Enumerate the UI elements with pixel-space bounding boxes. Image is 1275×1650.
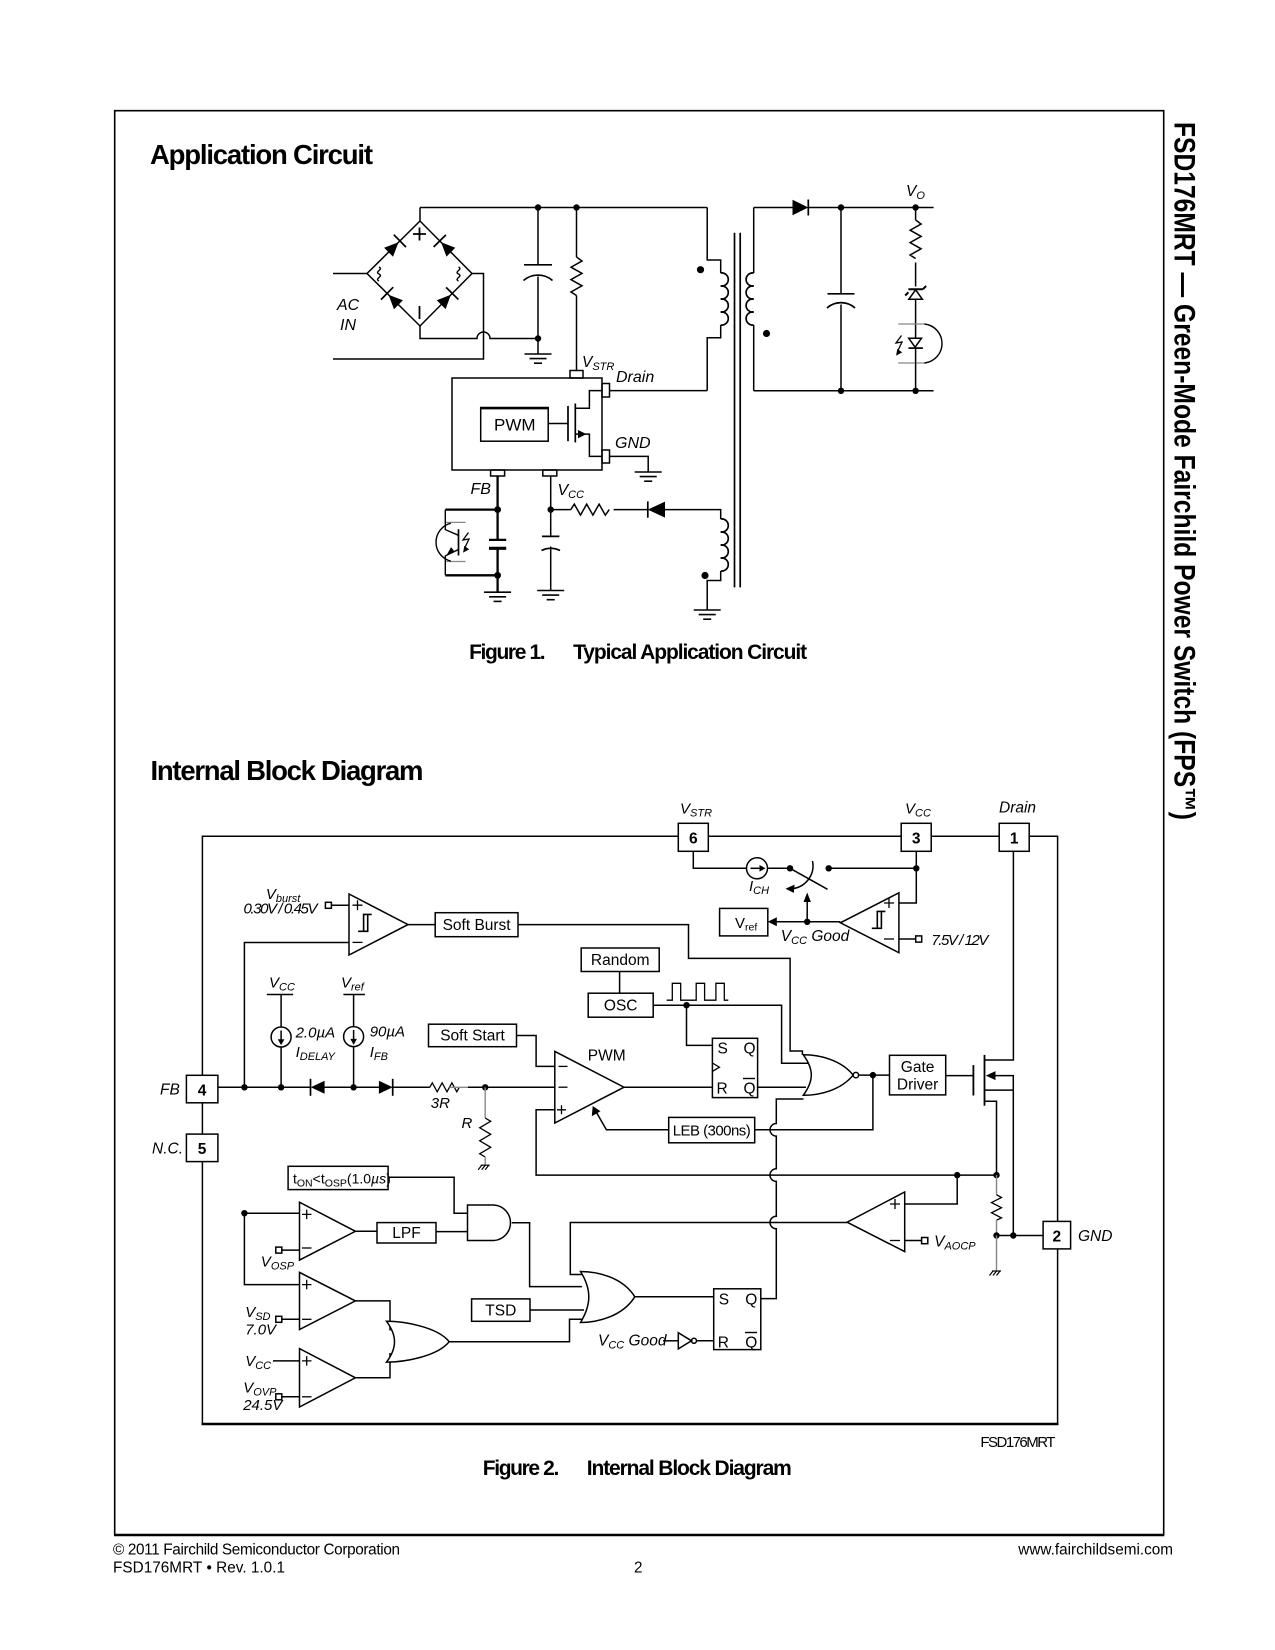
label Drain pin1 (999, 800, 1036, 817)
svg-text:Q: Q (744, 1081, 756, 1098)
opto phototransistor package (436, 522, 466, 561)
block Soft Start (429, 1024, 517, 1047)
MOSFET inside IC (548, 391, 602, 457)
ground: IC ground (635, 472, 662, 481)
svg-text:LPF: LPF (392, 1225, 420, 1242)
svg-text:6: 6 (689, 831, 698, 848)
caption: Figure 2. Internal Block Diagram (483, 1457, 792, 1480)
label FB (471, 481, 492, 498)
label Vo (906, 183, 925, 202)
ground: aux ground (694, 610, 721, 619)
block LPF (377, 1223, 436, 1243)
pin VCC stub (543, 470, 557, 476)
comparator PWM (555, 1051, 624, 1123)
comparator VSD (300, 1272, 356, 1329)
label GND pin2 (1078, 1228, 1112, 1245)
node: dot gnd at body (1010, 1232, 1016, 1238)
diode D_aux (648, 501, 665, 517)
label NC pin5 (152, 1140, 183, 1157)
gate NOR main (803, 1055, 858, 1096)
bridge plus mark (413, 228, 426, 241)
svg-text:OSC: OSC (604, 998, 638, 1015)
opto phototransistor light arrow (463, 533, 469, 553)
wire: burst output to Soft Burst (408, 924, 435, 926)
svg-text:Q: Q (745, 1292, 757, 1309)
ground: sense hatch ground (990, 1271, 1002, 1276)
label VSTR pin6 (680, 801, 712, 820)
node: dot FB at IDELAY (278, 1084, 284, 1090)
wire: 3R to PWM minus (468, 1086, 555, 1088)
svg-text:S: S (718, 1041, 728, 1058)
pin Drain stub (602, 384, 610, 398)
gate AND OSP (468, 1205, 511, 1241)
ground: VCC ground (537, 591, 564, 600)
wire: FB net thick (445, 476, 497, 592)
node: junction dot at startup resistor top (573, 204, 579, 210)
transformer secondary winding (746, 208, 754, 391)
wire: FF1 Qbar to NOR input (758, 1086, 806, 1088)
svg-text:Q: Q (744, 1041, 756, 1058)
opto phototransistor Q_fb (445, 510, 458, 576)
terminal square 7.5V/12V (916, 936, 922, 942)
label PWM blockdiag (588, 1048, 626, 1065)
wire: small OR output to big OR (449, 1319, 582, 1341)
current source ICH (747, 858, 768, 879)
svg-text:5: 5 (198, 1141, 207, 1158)
comparator OSP (300, 1202, 356, 1260)
footer right url (1017, 1541, 1173, 1558)
clock waveform (667, 983, 729, 1000)
node: FB junction dot top (494, 506, 501, 513)
wire: big OR to FF2 S (635, 1296, 714, 1298)
svg-text:2.0µA: 2.0µA (295, 1025, 336, 1042)
node: dot on OSC wire (683, 1002, 689, 1008)
comparator VCC good (left pointing) (840, 893, 899, 953)
node: junction dot at filter cap top (535, 204, 541, 210)
pin FB stub (491, 470, 505, 476)
wire: rectified DC top rail (420, 207, 707, 209)
terminal square VOSP (276, 1247, 300, 1253)
svg-text:LEB (300ns): LEB (300ns) (673, 1123, 751, 1140)
svg-text:Drain: Drain (999, 800, 1036, 817)
svg-text:PWM: PWM (588, 1048, 626, 1065)
svg-text:4: 4 (198, 1082, 207, 1099)
node: junction dot VCC (548, 506, 554, 512)
block diagram outer box (202, 836, 1059, 1424)
svg-text:7.0V: 7.0V (245, 1322, 278, 1339)
wire: gate driver to mosfet gate (946, 1075, 974, 1077)
block TSD (472, 1299, 530, 1321)
svg-text:3: 3 (912, 831, 921, 848)
label AC IN (336, 297, 360, 334)
svg-text:FSD176MRT: FSD176MRT (980, 1434, 1055, 1451)
wire: drain to transformer (610, 390, 708, 392)
svg-text:R: R (717, 1081, 728, 1098)
node: junction dot cap bottom (838, 388, 844, 394)
wire: IDELAY to FB line (280, 1047, 282, 1087)
zener diode ZD1 (905, 286, 926, 338)
bridge diode lower-left (381, 287, 403, 309)
pin 3 VCC (901, 823, 931, 851)
svg-text:© 2011 Fairchild Semiconductor: © 2011 Fairchild Semiconductor Corporati… (113, 1541, 400, 1558)
power MOSFET M1 (973, 852, 1013, 1236)
node: junction dot divider bottom (912, 388, 918, 394)
node: dot NOR output (870, 1072, 876, 1078)
wire: GND pin to ground (610, 456, 649, 472)
node: dot at OSP branch (241, 1210, 247, 1216)
flip-flop FF2 (714, 1289, 761, 1352)
terminal square Vburst (325, 902, 331, 908)
svg-text:1: 1 (1010, 831, 1019, 848)
svg-text:90µA: 90µA (370, 1024, 405, 1041)
wire: OSC output (653, 1005, 810, 1063)
svg-text:Driver: Driver (897, 1077, 938, 1094)
supply bar VCC for IDELAY (267, 995, 293, 1028)
footer left line 1 (113, 1541, 400, 1558)
wire: pin6 to ICH (693, 851, 746, 868)
svg-text:3R: 3R (431, 1095, 450, 1112)
svg-text:Soft Start: Soft Start (440, 1028, 505, 1045)
bridge minus mark (419, 306, 421, 319)
svg-text:FB: FB (160, 1082, 180, 1099)
wire: LPF to AND input (436, 1231, 468, 1233)
svg-text:R: R (718, 1335, 729, 1352)
wire: VSD out to small OR (355, 1301, 390, 1331)
opto LED diode (908, 338, 923, 391)
wire: secondary top rail (754, 207, 934, 209)
wire: LEB output to NOR net (755, 1075, 873, 1130)
svg-text:GND: GND (1078, 1228, 1112, 1245)
block Gate Driver (890, 1055, 946, 1095)
label Vref above IFB (341, 975, 365, 994)
wire: OSP plus from FB node (244, 1212, 299, 1214)
wire: LEB input diagonal arrow to PWM (592, 1106, 669, 1130)
label FSD176MRT (980, 1434, 1055, 1451)
svg-text:2: 2 (634, 1559, 643, 1576)
output rectifier diode D_out (793, 200, 809, 216)
wire: OSP out to LPF (355, 1230, 377, 1232)
wire: VCC label to VOVP plus (273, 1360, 300, 1362)
node: junction dot Vo (912, 204, 918, 210)
resistor R_bias output (910, 208, 921, 287)
transformer core (735, 233, 741, 588)
node: junction dot bridge bottom rail (535, 335, 541, 341)
svg-text:FSD176MRT — Green-Mode Fairchi: FSD176MRT — Green-Mode Fairchild Power S… (1168, 122, 1201, 820)
supply bar Vref for IFB (343, 995, 365, 1027)
label VCC for VOVP (245, 1353, 271, 1372)
wire: AC line upper (333, 273, 367, 275)
label VOSP (261, 1254, 295, 1273)
label Vburst (266, 886, 301, 905)
svg-text:N.C.: N.C. (152, 1140, 183, 1157)
resistor 3R (430, 1083, 468, 1092)
wire: IFB to FB line (353, 1047, 355, 1088)
wire: comparator minus to threshold terminal (899, 938, 916, 940)
opto LED package (898, 324, 942, 363)
capacitor C_in electrolytic (524, 208, 553, 339)
svg-text:TSD: TSD (485, 1303, 516, 1320)
arrow up to switch (804, 893, 811, 922)
block Soft Burst (435, 913, 518, 937)
diode D1 on FB line (pointing left) (311, 1079, 379, 1096)
comparator burst (349, 894, 408, 955)
transformer aux winding (707, 519, 728, 610)
wire: soft start to PWM minus1 (517, 1036, 555, 1067)
wire: AOCP output left (570, 1223, 847, 1275)
svg-text:2: 2 (1052, 1228, 1061, 1245)
gate OR small (387, 1321, 450, 1362)
switch blade (790, 868, 828, 889)
wire: AND output to OR (512, 1223, 582, 1287)
svg-text:Soft Burst: Soft Burst (443, 917, 512, 934)
svg-text:AC: AC (336, 297, 360, 314)
resistor R_vcc (551, 504, 648, 515)
resistor R_sense (992, 1175, 1002, 1235)
ground: R hatch ground (478, 1165, 490, 1170)
bridge diode lower-right (437, 287, 459, 309)
gate OR protection (581, 1272, 635, 1323)
bridge rectifier BR1 diamond (367, 221, 472, 326)
wire: PWM output to FF1 R (624, 1086, 712, 1088)
terminal square VAOCP (922, 1238, 928, 1244)
terminal square VSD (276, 1316, 300, 1322)
label VCC Good top (781, 928, 851, 947)
label VSTR (582, 354, 614, 373)
label 3R (431, 1095, 450, 1112)
resistor R_startup (571, 208, 582, 371)
svg-text:Internal Block Diagram: Internal Block Diagram (587, 1457, 792, 1480)
svg-text:S: S (719, 1292, 729, 1309)
terminal square VOVP (276, 1394, 300, 1400)
wire: OSC to FF1 S input (687, 1005, 713, 1045)
comparator VOVP (300, 1349, 356, 1407)
bridge right ac tilde (457, 267, 460, 281)
svg-text:Drain: Drain (616, 369, 654, 386)
current source IDELAY (271, 1027, 291, 1047)
svg-text:Application Circuit: Application Circuit (150, 139, 373, 170)
comparator AOCP (left pointing) (847, 1192, 905, 1252)
wire: FB line from pin4 (218, 1086, 310, 1088)
capacitor C_fb (489, 540, 506, 548)
switch contact dots (787, 865, 832, 871)
wire: AOCP minus to terminal (905, 1240, 922, 1242)
svg-text:Figure 1.: Figure 1. (469, 641, 545, 664)
block Random (581, 948, 659, 972)
node: dot FB at burst branch (241, 1084, 247, 1090)
svg-text:GND: GND (615, 435, 651, 452)
pin GND stub (602, 450, 610, 463)
wire: AOCP plus input (905, 1175, 958, 1204)
svg-text:Random: Random (591, 952, 650, 969)
arrowhead into Vref box (768, 917, 777, 926)
svg-text:7.5V / 12V: 7.5V / 12V (931, 932, 990, 949)
inverter VCC good (678, 1333, 713, 1349)
svg-text:IN: IN (340, 317, 356, 334)
label 7.5V / 12V (931, 932, 990, 949)
node: junction dot output cap top (838, 204, 844, 210)
pin 4 FB (186, 1075, 218, 1103)
label VCC above IDELAY (269, 975, 295, 994)
label VAOCP (934, 1234, 976, 1253)
pin 1 Drain (999, 823, 1029, 851)
wire: comparator output VCC Good (776, 921, 840, 923)
label VOVP 24.5V (242, 1380, 284, 1415)
page border frame (114, 111, 1164, 1536)
svg-text:Q: Q (745, 1335, 757, 1352)
wire: burst minus input from FB node (244, 943, 349, 1088)
label VCC (558, 482, 585, 501)
svg-text:PWM: PWM (494, 416, 536, 435)
svg-text:www.fairchildsemi.com: www.fairchildsemi.com (1017, 1541, 1173, 1558)
PWM block inside IC (481, 408, 549, 442)
node: dot FB at IFB (350, 1084, 356, 1090)
block tON OSP (288, 1166, 391, 1189)
heading: Application Circuit (150, 139, 373, 170)
capacitor C_vcc (542, 536, 561, 590)
capacitor C_out (827, 208, 855, 391)
label 2.0uA IDELAY (295, 1025, 336, 1064)
wire: ground rail to pin2 (997, 1235, 1044, 1237)
label 90uA IFB (370, 1024, 405, 1064)
label 0.30V / 0.45V (244, 901, 320, 918)
ground: input ground (525, 339, 552, 364)
wire: pin3 down to comparator plus (899, 852, 916, 903)
node: dot under pin3 (913, 865, 919, 871)
wire: tON box to AND input (388, 1177, 467, 1213)
wire: soft burst to NOR top input (518, 925, 802, 1055)
label VCC pin3 (905, 801, 931, 820)
wire: AC line lower with return (333, 274, 484, 360)
opto LED light arrow (896, 336, 902, 356)
node: dot on VCC good wire (804, 919, 810, 925)
label VCC Good bottom (598, 1333, 668, 1352)
node: FB junction dot bottom (494, 572, 501, 579)
wire: secondary bottom rail (754, 390, 934, 392)
node: dot sense at AOCP branch (954, 1172, 960, 1178)
block LEB (669, 1117, 755, 1142)
current source IFB (344, 1027, 364, 1047)
wire: FB node down to VSD (244, 1213, 299, 1284)
svg-text:Internal Block Diagram: Internal Block Diagram (151, 755, 424, 786)
svg-text:0.30V / 0.45V: 0.30V / 0.45V (244, 901, 320, 918)
wire: random to osc (619, 972, 621, 994)
switch actuator arc arrow (786, 861, 813, 893)
node: secondary phase dot (763, 330, 770, 337)
label Drain (616, 369, 654, 386)
ground: FB ground (484, 592, 511, 601)
label GND (615, 435, 651, 452)
wire: FF2 Q up to NOR bottom with hops (761, 1099, 804, 1299)
node: dot at R divider (482, 1084, 488, 1090)
wire: current sense line to PWM plus (536, 1110, 996, 1175)
node: dot sense at resistor (993, 1172, 999, 1178)
footer page number (634, 1559, 643, 1576)
bridge diode upper-left (384, 235, 406, 257)
wire: VOVP out to small OR (355, 1353, 390, 1378)
svg-text:Gate: Gate (901, 1059, 935, 1076)
wire: NOR output to gate driver (859, 1074, 890, 1076)
diode D2 on FB line (pointing right) (379, 1079, 430, 1096)
caption: Figure 1. Typical Application Circuit (469, 641, 807, 664)
resistor R divider (480, 1087, 491, 1165)
node: aux phase dot (701, 572, 708, 579)
wire: ICH to switch contact (768, 867, 791, 869)
wire: bridge top vertex to top rail (419, 208, 421, 222)
wire: TSD to big OR (530, 1309, 584, 1311)
block OSC (588, 993, 653, 1017)
footer left line 2 (113, 1559, 285, 1576)
pin 5 NC (186, 1134, 218, 1162)
pin 2 GND (1043, 1221, 1071, 1249)
wire: switch to pin3 node (829, 867, 917, 869)
svg-text:Figure 2.: Figure 2. (483, 1457, 560, 1480)
sidebar vertical title (1168, 122, 1201, 820)
wire: VCC node (550, 476, 552, 536)
svg-text:R: R (462, 1115, 473, 1132)
node: primary phase dot (697, 266, 704, 273)
label R (462, 1115, 473, 1132)
pin 6 VSTR (678, 823, 708, 851)
svg-text:FSD176MRT • Rev. 1.0.1: FSD176MRT • Rev. 1.0.1 (113, 1559, 285, 1576)
label FB pin4 (160, 1082, 180, 1099)
wire: vcc aux feed (665, 510, 721, 519)
transformer primary winding (707, 208, 728, 391)
bridge diode upper-right (434, 235, 456, 257)
heading: Internal Block Diagram (151, 755, 424, 786)
label ICH (749, 878, 769, 897)
svg-text:Typical Application Circuit: Typical Application Circuit (573, 641, 807, 664)
wire: gnd stub down (996, 1236, 998, 1272)
label VSD 7.0V (245, 1304, 278, 1339)
flip-flop FF1 (712, 1038, 757, 1097)
svg-text:FB: FB (471, 481, 492, 498)
bridge left ac tilde (378, 267, 381, 281)
IC U1 box (452, 378, 602, 470)
node: dot gnd at resistor (993, 1232, 999, 1238)
wire: Vburst terminal to comparator (331, 904, 349, 906)
wire: bridge bottom to ground node with hop (420, 326, 538, 339)
svg-text:24.5V: 24.5V (242, 1397, 284, 1414)
wire: vcc good dash (663, 1340, 678, 1342)
block Vref (720, 908, 768, 936)
pin VSTR stub (570, 371, 583, 379)
